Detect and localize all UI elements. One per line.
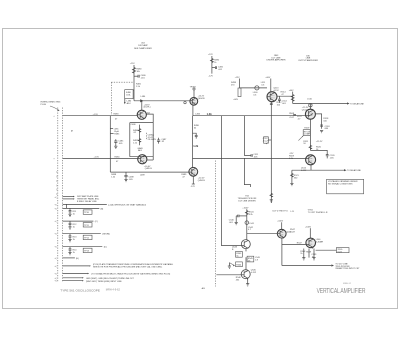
svg-text:C547: C547: [290, 232, 296, 234]
pin stubs column: [56, 172, 58, 196]
test point circle on base line: [184, 101, 186, 103]
inductor L508 label: [289, 113, 295, 115]
svg-text:«(: «(: [55, 221, 57, 223]
ground: [124, 179, 127, 181]
svg-text:1k: 1k: [73, 214, 76, 216]
svg-text:+100V: +100V: [305, 226, 312, 228]
dashed coupling horizontal: [111, 81, 134, 83]
svg-text:MRH 62: MRH 62: [343, 283, 352, 285]
svg-text:270: 270: [231, 84, 235, 86]
ground: [228, 266, 231, 268]
power +100V trigger chain: [242, 207, 249, 239]
svg-text:1.5k: 1.5k: [136, 86, 141, 88]
wire to trigger out box: [316, 249, 337, 251]
svg-text:R485: R485: [114, 133, 120, 135]
wire bias to Q513 base: [240, 87, 267, 89]
ground: [235, 222, 238, 224]
wire row2 to row3 jog: [66, 204, 68, 208]
wire tap row3: [63, 207, 100, 209]
svg-text:VERTICAL AMPLIFIER: VERTICAL AMPLIFIER: [317, 288, 366, 295]
wire tap row4: [63, 220, 94, 222]
svg-text:TP12: TP12: [84, 238, 90, 240]
svg-text:(DCPL): (DCPL): [144, 107, 151, 109]
svg-text:4.7: 4.7: [248, 229, 252, 231]
dashed shield vertical: [215, 161, 217, 287]
svg-text:DRIVER AMPLIFIER: DRIVER AMPLIFIER: [267, 59, 287, 62]
svg-text:«(: «(: [55, 266, 57, 268]
wire input line A: [63, 115, 138, 117]
section title DELAY LINE DRIVER: [267, 55, 287, 62]
arrow junction: [140, 99, 143, 102]
ground: [68, 253, 71, 255]
section title INPUT AMPLIFIER: [134, 43, 152, 50]
svg-text:680: 680: [325, 128, 329, 130]
wire Q513 emitter long vertical: [270, 102, 272, 203]
ferrite bead L516: [307, 98, 312, 109]
resistor R521: [291, 170, 300, 183]
wire tap row8: [63, 273, 88, 275]
svg-text:(C): (C): [95, 221, 98, 223]
svg-text:+60V: +60V: [265, 77, 270, 79]
wire tap row7: [63, 265, 90, 267]
svg-text:B: B: [232, 249, 234, 251]
voltage note box: [327, 179, 364, 194]
svg-text:L516: L516: [307, 98, 312, 100]
svg-text:Q494 B: Q494 B: [198, 180, 206, 182]
svg-text:.005: .005: [129, 179, 134, 181]
svg-text:+1.5V: +1.5V: [94, 157, 100, 159]
capacitor C517: [289, 114, 296, 119]
svg-text:«(: «(: [55, 278, 57, 280]
svg-text:10k: 10k: [137, 71, 141, 73]
svg-text:(E): (E): [76, 258, 79, 260]
svg-text:TP11: TP11: [84, 225, 90, 227]
svg-text:4.7: 4.7: [298, 118, 302, 120]
svg-text:(GEOM): (GEOM): [102, 234, 110, 236]
svg-text:62: 62: [134, 132, 137, 134]
transistor Q494: [189, 167, 205, 182]
power +12V decoupling chain: [208, 54, 224, 77]
ground: [68, 227, 71, 229]
wire tap row1b: [63, 198, 73, 200]
svg-text:L480: L480: [141, 96, 146, 98]
wire inner box cross top: [130, 122, 153, 124]
svg-text:.005: .005: [330, 158, 335, 160]
wire network verticals: [245, 257, 247, 269]
label to CRT plates: [308, 209, 329, 213]
terminal box row6: [83, 248, 92, 252]
capacitor row3: [69, 208, 77, 215]
capacitor C480: [134, 75, 146, 80]
resistor R484: [115, 156, 121, 163]
svg-text:A B: A B: [202, 287, 206, 290]
svg-text:+1.5V: +1.5V: [93, 114, 99, 116]
svg-text:«(: «(: [55, 258, 57, 260]
resistor R543 box: [236, 251, 243, 257]
adjustment arrow: [124, 99, 132, 105]
svg-text:43k: 43k: [236, 279, 240, 281]
svg-text:1.5k: 1.5k: [111, 177, 116, 179]
svg-text:TO CRT PLATES L.R.: TO CRT PLATES L.R.: [308, 211, 329, 214]
svg-text:C486: C486: [131, 124, 137, 126]
wire input line B: [63, 157, 138, 159]
capacitor C540: [229, 215, 247, 224]
transistor Q543: [232, 240, 250, 251]
svg-text:DIST AMP: DIST AMP: [138, 44, 148, 47]
capacitor C542: [248, 227, 254, 231]
wire tap row2: [63, 203, 107, 205]
svg-text:.001: .001: [141, 77, 146, 79]
wire collector chain vertical: [192, 116, 194, 168]
wire junction to Q544 base: [247, 232, 278, 234]
svg-text:.001: .001: [218, 69, 223, 71]
wire rail2 lower delay rail: [193, 157, 306, 159]
wire Q515 emitter: [310, 165, 312, 170]
wire Q543 emitter down: [245, 249, 247, 252]
svg-text:NO SIGNAL CONDITIONS: NO SIGNAL CONDITIONS: [328, 183, 353, 186]
svg-text:1.2k: 1.2k: [193, 144, 199, 148]
transistor Q484: [190, 95, 205, 105]
wire tap row1a: [63, 196, 73, 198]
svg-text:1.2k: 1.2k: [133, 142, 138, 144]
inductor L511: [261, 82, 266, 86]
resistor R549: [306, 249, 312, 258]
svg-text:Q485 B: Q485 B: [145, 168, 153, 170]
ground: [302, 258, 305, 260]
svg-text:.005: .005: [118, 143, 123, 145]
svg-text:Q484 B: Q484 B: [198, 98, 206, 100]
wire inner box bottom: [147, 159, 154, 161]
resistor R489: [181, 174, 187, 178]
resistor R545 box: [247, 256, 254, 262]
capacitor C549: [311, 249, 317, 259]
node +225V label: [144, 104, 151, 108]
svg-text:1k: 1k: [73, 239, 76, 241]
wire tap row6b: [63, 257, 75, 259]
arrow head: [82, 277, 84, 278]
svg-text:«(: «(: [55, 204, 57, 206]
transistor Q483: [137, 101, 150, 120]
test point TP484: [190, 86, 197, 97]
arrow head: [73, 196, 75, 197]
svg-text:-12V: -12V: [209, 76, 214, 78]
wire inner center vertical: [139, 125, 141, 146]
svg-text:1.8: 1.8: [255, 260, 259, 262]
wire between output pair: [309, 119, 311, 150]
power +100V Q544: [277, 221, 284, 230]
svg-text:0.6: 0.6: [261, 85, 265, 87]
svg-text:TYPE 561 OSCILLOSCOPE: TYPE 561 OSCILLOSCOPE: [60, 288, 100, 292]
terminal box row5: [83, 235, 92, 239]
wire Q544 emitter node: [282, 238, 306, 244]
arrow head lower: [344, 169, 347, 171]
svg-text:TP13: TP13: [84, 251, 90, 253]
svg-text:82: 82: [162, 141, 165, 143]
wire inner box top: [146, 114, 153, 123]
resistor R548: [300, 249, 306, 258]
ground: [312, 258, 315, 260]
ground: [114, 145, 117, 149]
capacitor C485: [114, 139, 124, 145]
wire tap row6: [63, 246, 103, 248]
wire vertical bias x221: [221, 116, 241, 246]
svg-text:100: 100: [277, 104, 281, 106]
svg-text:+15.2V: +15.2V: [316, 141, 323, 143]
svg-text:.001: .001: [282, 103, 287, 105]
interconnecting plug dashed line left: [57, 108, 59, 283]
wire +15V feed: [133, 65, 135, 101]
capacitor C488: [124, 172, 134, 181]
resistor R546: [236, 277, 242, 281]
label row7 note: [93, 263, 174, 268]
capacitor row4: [69, 221, 78, 228]
thermal compensation box: [298, 128, 310, 141]
svg-text:+60V: +60V: [233, 99, 238, 101]
arrow head: [87, 273, 89, 274]
power +100V Q546: [305, 226, 312, 238]
svg-text:L489: L489: [140, 174, 145, 176]
svg-text:-12V: -12V: [191, 186, 196, 188]
arrow and ground left: [229, 263, 235, 267]
svg-text:«(: «(: [55, 281, 57, 283]
svg-text:+15V: +15V: [130, 63, 135, 65]
resistor R541: [245, 211, 254, 216]
section title TRIGGER PICKOFF: [238, 196, 258, 203]
capacitor row5: [69, 234, 78, 241]
svg-text:«(: «(: [55, 208, 57, 210]
svg-text:«(: «(: [55, 247, 57, 249]
interconnecting plug dashed line right: [62, 108, 64, 283]
wire output arrow line: [282, 265, 332, 267]
capacitor on emitter: [270, 103, 273, 104]
svg-text:(E: (E: [71, 130, 74, 132]
wire trigger input line: [216, 274, 241, 276]
inductor L485: [110, 128, 119, 132]
svg-text:SEE NOTE FOR PROPER ADJ PROCED: SEE NOTE FOR PROPER ADJ PROCEDURE (FACTO…: [93, 266, 163, 269]
svg-text:1k: 1k: [73, 226, 76, 228]
ferrite bead L500: [253, 86, 259, 97]
svg-text:TP10: TP10: [84, 212, 90, 214]
ground: [290, 183, 293, 185]
wire vertical bias x244: [244, 116, 251, 156]
capacitor C514: [278, 96, 288, 105]
pin stub marks rows: [55, 197, 57, 283]
wire tap row5: [63, 233, 101, 235]
svg-text:+60V: +60V: [289, 90, 294, 92]
svg-text:COMP: COMP: [304, 134, 311, 136]
wire Q484 emitter to rail1: [192, 105, 194, 116]
transistor Q514: [302, 107, 316, 119]
label dist amp plate line: [77, 195, 100, 203]
label to sweep trigger: [335, 263, 360, 270]
svg-text:1.2k: 1.2k: [207, 112, 213, 116]
svg-text:«(: «(: [55, 274, 57, 276]
svg-text:16: 16: [303, 143, 306, 145]
svg-text:OUTPUT AMPLIFIER: OUTPUT AMPLIFIER: [298, 59, 318, 62]
resistor R496: [194, 125, 200, 129]
label GAIN ADJ: [137, 147, 143, 152]
svg-text:R519: R519: [304, 128, 310, 130]
label row9: [86, 278, 135, 283]
dashed coupling vertical: [110, 82, 112, 115]
capacitor C496 jog: [193, 133, 198, 138]
svg-text:DLY’D TRIG P.O.: DLY’D TRIG P.O.: [273, 210, 289, 212]
terminal box row3: [83, 210, 92, 214]
svg-text:1k: 1k: [300, 253, 303, 255]
wire Q513 collector right: [277, 95, 293, 97]
trimmer C486A dashed: [146, 133, 156, 141]
transistor Q485: [138, 155, 153, 171]
svg-text:TO DELAY LINE: TO DELAY LINE: [347, 169, 361, 172]
trimmer C496 box: [263, 137, 272, 144]
svg-text:47: 47: [281, 94, 284, 96]
ground: [68, 214, 71, 216]
svg-text:2X GAIN: 2X GAIN: [148, 138, 157, 141]
svg-text:OUT: OUT: [337, 251, 342, 253]
svg-text:ADJ: ADJ: [138, 149, 142, 152]
capacitor C520: [310, 150, 335, 159]
wire inner box right: [152, 123, 154, 160]
terminal box row4: [83, 223, 92, 227]
svg-text:4-152: 4-152: [251, 272, 257, 274]
potentiometer R487: [133, 139, 141, 145]
transistor Q544: [277, 229, 292, 238]
svg-text:C517: C517: [289, 117, 295, 119]
svg-text:+100V: +100V: [242, 207, 249, 209]
ground: [246, 284, 249, 286]
arrow head: [89, 265, 91, 266]
svg-text:L541: L541: [249, 223, 254, 225]
svg-text:330: 330: [294, 177, 298, 179]
wire Q494 emitter stub: [192, 176, 194, 184]
wire to delay line lower: [292, 169, 344, 171]
svg-text:1k: 1k: [214, 62, 217, 64]
wire inner box cross bottom: [130, 156, 153, 158]
power +60V pullup: [289, 90, 295, 104]
svg-text:8 NSEC DELAY LINE: 8 NSEC DELAY LINE: [77, 200, 97, 203]
svg-text:(TO SIGNAL FROM MULTI-TRACE PL: (TO SIGNAL FROM MULTI-TRACE PLUG-IN UNIT…: [91, 273, 170, 276]
wire node to driver base: [134, 100, 190, 102]
capacitor C487: [157, 138, 167, 144]
svg-text:ADJ: ADJ: [127, 102, 131, 105]
capacitor C545: [255, 257, 261, 261]
svg-text:+100V: +100V: [277, 221, 284, 223]
label R512: [277, 102, 283, 106]
power +60V Q513 collector: [265, 77, 270, 92]
ground: [270, 200, 273, 202]
svg-text:COIL: COIL: [126, 95, 132, 97]
transistor Q515: [301, 155, 316, 172]
arrow head upper: [347, 102, 350, 104]
svg-text:0.6: 0.6: [253, 94, 257, 96]
svg-text:«: «: [54, 116, 56, 118]
resistor R544 box: [236, 262, 243, 267]
arrow head: [82, 280, 84, 281]
svg-text:(WHT-GRY) TERM (GRN) INPUT LI: (WHT-GRY) TERM (GRN) INPUT LINE: [86, 281, 122, 283]
svg-text:8.2k: 8.2k: [249, 214, 254, 216]
trigger out box: [336, 248, 349, 254]
resistor R514: [281, 91, 287, 95]
svg-text:«(: «(: [55, 234, 57, 236]
labels left of rail2 entry: [289, 153, 295, 160]
svg-text:Q514: Q514: [302, 110, 308, 112]
wire Q545 emitter: [247, 279, 249, 284]
resistor R547: [297, 243, 303, 245]
svg-text:R508: R508: [289, 113, 295, 115]
svg-text:MRH 4-9-62: MRH 4-9-62: [106, 288, 121, 292]
svg-text:DLY LINE DRIVER: DLY LINE DRIVER: [238, 200, 256, 202]
svg-text:(B): (B): [101, 208, 104, 210]
resistor R488: [111, 174, 117, 178]
svg-text:«(: «(: [55, 197, 57, 199]
ground: [68, 240, 71, 242]
wire to delay line upper: [293, 103, 347, 105]
svg-text:R483: R483: [114, 114, 120, 116]
wire Q514 collector right: [315, 114, 321, 129]
svg-text:PLUG: PLUG: [41, 104, 47, 106]
svg-text:62: 62: [194, 128, 197, 130]
resistor R480: [133, 68, 143, 74]
svg-text:(+CAL WHITE-BLK ON GRAY GAIN: (+CAL WHITE-BLK ON GRAY GAIN ADJ): [108, 203, 146, 206]
capacitor C541: [251, 154, 259, 159]
resistor end of emitter chain: [270, 194, 273, 198]
transistor Q545: [241, 269, 257, 279]
resistor R518: [323, 118, 329, 122]
svg-text:4-30MH: 4-30MH: [316, 242, 324, 244]
svg-text:47: 47: [182, 176, 185, 178]
svg-text:100: 100: [323, 121, 327, 123]
wire emitter to output arrow: [281, 244, 283, 265]
resistor R483: [114, 114, 120, 121]
arrow head: [331, 264, 334, 266]
wire network left vertical: [109, 116, 111, 172]
svg-text:4-152: 4-152: [273, 90, 279, 92]
svg-text:(D): (D): [104, 247, 107, 249]
wire tap row9b: [63, 280, 82, 282]
label INTERCONNECTING PLUG: [41, 102, 61, 111]
arrow head: [73, 198, 75, 199]
resistor R517: [297, 116, 303, 120]
wire bottom rail: [110, 171, 189, 173]
resistor R485: [110, 133, 120, 135]
resistor R520: [309, 145, 322, 150]
svg-text:+12V: +12V: [208, 54, 213, 56]
ferrite bead L541: [245, 221, 255, 225]
transistor Q513: [267, 88, 279, 103]
wire rail2 branch jog: [244, 158, 250, 187]
section title OUTPUT AMPLIFIER: [298, 55, 318, 62]
resistor R486: [133, 129, 141, 135]
ground: [320, 130, 323, 132]
svg-text:SWEEP TRIG INPUT CKT: SWEEP TRIG INPUT CKT: [335, 268, 360, 270]
relay K480 box: [125, 90, 134, 99]
svg-text:47: 47: [116, 161, 119, 163]
svg-text:TO DELAY LINE: TO DELAY LINE: [350, 103, 364, 106]
svg-text:47: 47: [115, 118, 118, 120]
transistor Q546: [306, 238, 324, 249]
resistor R511: [303, 141, 309, 145]
capacitor row6: [69, 247, 78, 254]
svg-text:«: «: [54, 159, 56, 161]
svg-text:R547: R547: [297, 243, 303, 245]
svg-text:R544: R544: [236, 264, 242, 266]
resistor R481: [136, 83, 142, 87]
power -12V stub: [191, 184, 196, 188]
svg-text:L.R.: L.R.: [291, 211, 295, 213]
svg-text:GND (WHT), GND (BLK-ON-WHT) T: GND (WHT), GND (BLK-ON-WHT) TERM LINE CK…: [86, 278, 135, 280]
resistor R547 labels: [290, 229, 296, 233]
svg-text:R484: R484: [115, 156, 121, 158]
